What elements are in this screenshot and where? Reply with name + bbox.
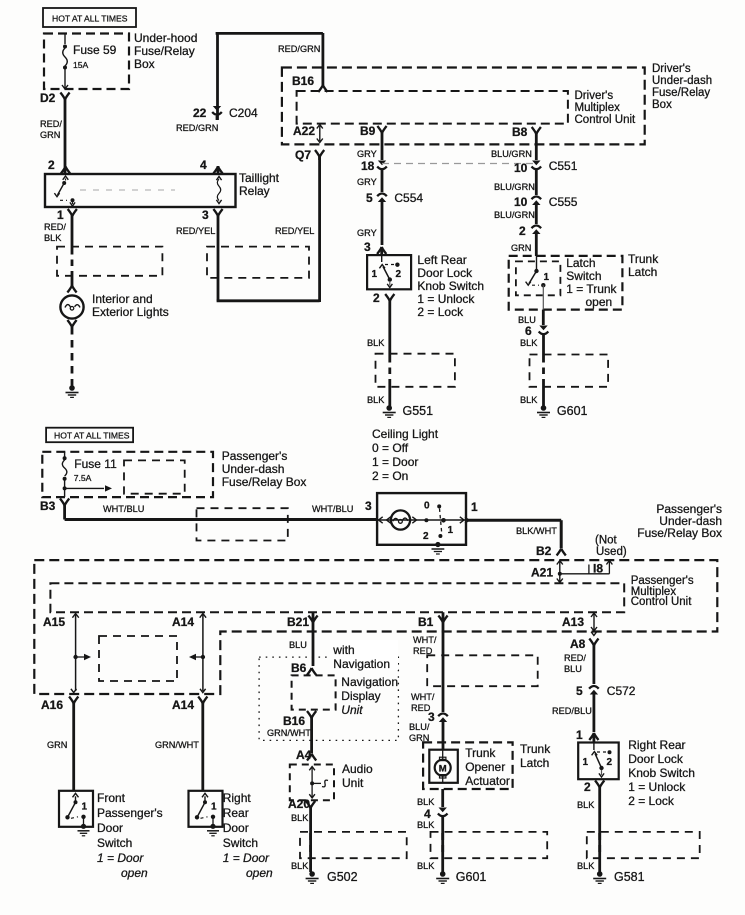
svg-text:A8: A8	[570, 637, 586, 651]
svg-text:Fuse/Relay: Fuse/Relay	[652, 87, 710, 99]
svg-text:A13: A13	[562, 615, 584, 629]
svg-text:3: 3	[364, 240, 371, 254]
svg-text:B3: B3	[40, 499, 56, 513]
svg-text:Taillight: Taillight	[239, 171, 280, 185]
svg-text:Box: Box	[134, 57, 155, 71]
svg-text:22: 22	[193, 106, 207, 120]
svg-text:BLK: BLK	[520, 338, 538, 348]
svg-text:BLU: BLU	[564, 664, 582, 674]
svg-text:5: 5	[576, 684, 583, 698]
svg-text:BLK: BLK	[44, 233, 62, 243]
svg-text:5: 5	[366, 191, 373, 205]
svg-text:BLU/: BLU/	[409, 722, 430, 732]
svg-text:4: 4	[424, 807, 431, 821]
svg-text:2: 2	[584, 780, 591, 794]
svg-text:Trunk: Trunk	[628, 252, 659, 266]
svg-text:Trunk: Trunk	[465, 746, 496, 760]
svg-text:2 = On: 2 = On	[372, 469, 408, 483]
svg-text:Under-dash: Under-dash	[222, 462, 285, 476]
svg-text:BLU/GRN: BLU/GRN	[494, 210, 535, 220]
svg-text:1: 1	[82, 801, 88, 812]
svg-text:Passenger's: Passenger's	[97, 806, 163, 820]
svg-text:Under-dash: Under-dash	[652, 75, 712, 87]
svg-text:BLK: BLK	[417, 797, 435, 807]
svg-text:WHT/: WHT/	[411, 692, 435, 702]
svg-text:1: 1	[211, 801, 217, 812]
svg-text:RED/YEL: RED/YEL	[176, 226, 215, 236]
svg-text:with: with	[332, 643, 354, 657]
svg-text:Door: Door	[97, 821, 123, 835]
svg-text:A4: A4	[296, 748, 312, 762]
svg-text:Door Lock: Door Lock	[417, 266, 473, 280]
svg-text:WHT/: WHT/	[413, 635, 437, 645]
svg-text:15A: 15A	[73, 60, 89, 70]
svg-text:A14: A14	[172, 698, 194, 712]
svg-text:1 = Door: 1 = Door	[372, 455, 418, 469]
svg-text:Fuse 59: Fuse 59	[73, 43, 117, 57]
svg-text:1: 1	[583, 757, 589, 768]
svg-text:2: 2	[48, 158, 55, 172]
svg-text:Q7: Q7	[295, 148, 311, 162]
svg-text:2: 2	[373, 291, 380, 305]
svg-text:Driver's: Driver's	[575, 90, 614, 102]
svg-text:Door: Door	[223, 821, 249, 835]
svg-text:18: 18	[361, 159, 375, 173]
svg-text:BLK: BLK	[577, 861, 595, 871]
svg-text:M: M	[439, 764, 447, 775]
svg-text:G502: G502	[327, 870, 358, 884]
svg-text:2 = Lock: 2 = Lock	[417, 305, 464, 319]
svg-text:1: 1	[544, 272, 550, 283]
svg-text:Latch: Latch	[566, 256, 595, 270]
svg-text:Rear: Rear	[223, 806, 249, 820]
svg-text:B16: B16	[283, 714, 305, 728]
svg-text:Fuse/Relay: Fuse/Relay	[134, 44, 195, 58]
svg-text:Fuse 11: Fuse 11	[74, 457, 117, 471]
svg-text:Unit: Unit	[341, 703, 363, 717]
svg-text:Exterior Lights: Exterior Lights	[92, 305, 169, 319]
svg-text:RED/GRN: RED/GRN	[176, 123, 218, 133]
svg-text:A21: A21	[531, 566, 553, 580]
svg-text:Switch: Switch	[97, 836, 132, 850]
svg-text:BLU: BLU	[289, 640, 307, 650]
svg-text:2: 2	[519, 224, 526, 238]
svg-text:1 = Trunk: 1 = Trunk	[566, 282, 617, 296]
svg-text:B8: B8	[512, 125, 528, 139]
svg-text:BLK: BLK	[520, 395, 538, 405]
svg-text:HOT AT ALL TIMES: HOT AT ALL TIMES	[52, 14, 128, 24]
svg-text:B16: B16	[292, 74, 314, 88]
svg-text:2: 2	[607, 757, 613, 768]
svg-text:A14: A14	[172, 615, 194, 629]
svg-text:GRY: GRY	[357, 177, 377, 187]
svg-text:GRN/WHT: GRN/WHT	[155, 740, 199, 750]
svg-text:open: open	[586, 295, 613, 309]
svg-text:Audio: Audio	[342, 762, 373, 776]
svg-text:(Not: (Not	[595, 535, 618, 547]
svg-text:Passenger's: Passenger's	[222, 449, 288, 463]
svg-text:Actuator: Actuator	[465, 774, 510, 788]
svg-text:G601: G601	[456, 870, 487, 884]
svg-text:B6: B6	[291, 661, 307, 675]
svg-text:BLK: BLK	[291, 813, 309, 823]
svg-text:WHT/BLU: WHT/BLU	[103, 504, 144, 514]
svg-text:Multiplex: Multiplex	[575, 102, 621, 114]
svg-text:BLK: BLK	[417, 861, 435, 871]
svg-text:Display: Display	[341, 689, 380, 703]
svg-text:0 = Off: 0 = Off	[372, 441, 409, 455]
svg-text:A22: A22	[293, 124, 315, 138]
svg-text:Ceiling Light: Ceiling Light	[372, 427, 439, 441]
svg-text:Switch: Switch	[223, 836, 258, 850]
svg-text:WHT/BLU: WHT/BLU	[312, 504, 353, 514]
svg-text:BLK: BLK	[367, 338, 385, 348]
svg-text:Used): Used)	[596, 546, 627, 558]
svg-text:A16: A16	[41, 698, 63, 712]
svg-text:Fuse/Relay Box: Fuse/Relay Box	[637, 526, 722, 540]
svg-text:Driver's: Driver's	[652, 63, 691, 75]
svg-text:1: 1	[372, 269, 378, 280]
svg-text:D2: D2	[40, 91, 56, 105]
svg-text:4: 4	[200, 158, 207, 172]
svg-text:A15: A15	[43, 615, 65, 629]
svg-text:Trunk: Trunk	[520, 742, 551, 756]
svg-text:2: 2	[423, 531, 429, 542]
svg-text:BLK: BLK	[291, 861, 309, 871]
svg-text:Navigation: Navigation	[341, 675, 398, 689]
svg-text:G601: G601	[557, 404, 588, 418]
svg-text:HOT AT ALL TIMES: HOT AT ALL TIMES	[54, 431, 130, 441]
svg-text:Opener: Opener	[465, 760, 505, 774]
svg-text:2: 2	[396, 269, 402, 280]
svg-text:RED/YEL: RED/YEL	[275, 226, 314, 236]
svg-text:BLK: BLK	[367, 395, 385, 405]
svg-text:BLU/GRN: BLU/GRN	[494, 182, 535, 192]
svg-text:Control Unit: Control Unit	[575, 114, 637, 126]
svg-text:open: open	[246, 866, 273, 880]
svg-text:BLU/GRN: BLU/GRN	[491, 149, 532, 159]
svg-text:C554: C554	[394, 191, 423, 205]
svg-text:Box: Box	[652, 99, 672, 111]
svg-text:Right: Right	[223, 791, 252, 805]
svg-text:1: 1	[576, 728, 583, 742]
svg-text:RED/: RED/	[44, 222, 66, 232]
svg-text:3: 3	[202, 208, 209, 222]
svg-text:Unit: Unit	[342, 776, 364, 790]
svg-text:1 = Unlock: 1 = Unlock	[628, 780, 686, 794]
svg-text:G581: G581	[614, 870, 645, 884]
svg-text:I8: I8	[593, 562, 603, 576]
svg-text:B21: B21	[287, 615, 309, 629]
svg-text:1: 1	[448, 525, 454, 536]
svg-text:RED/GRN: RED/GRN	[278, 44, 320, 54]
svg-text:Control Unit: Control Unit	[631, 596, 693, 608]
svg-text:B1: B1	[418, 615, 434, 629]
svg-text:BLK: BLK	[577, 800, 595, 810]
svg-text:open: open	[121, 866, 148, 880]
svg-text:C204: C204	[229, 106, 258, 120]
svg-text:GRN/WHT: GRN/WHT	[267, 728, 311, 738]
svg-text:RED/: RED/	[40, 119, 62, 129]
svg-text:GRY: GRY	[357, 149, 377, 159]
svg-text:Latch: Latch	[520, 756, 549, 770]
svg-text:Knob Switch: Knob Switch	[417, 279, 484, 293]
svg-text:GRY: GRY	[357, 228, 377, 238]
svg-text:C555: C555	[549, 195, 578, 209]
svg-text:10: 10	[514, 161, 528, 175]
svg-text:Fuse/Relay Box: Fuse/Relay Box	[222, 475, 307, 489]
svg-text:Interior and: Interior and	[92, 292, 153, 306]
svg-text:Knob Switch: Knob Switch	[628, 766, 695, 780]
svg-text:GRN: GRN	[40, 130, 60, 140]
svg-text:7.5A: 7.5A	[74, 473, 92, 483]
svg-text:C551: C551	[549, 159, 578, 173]
svg-text:RED/: RED/	[564, 653, 586, 663]
svg-text:B9: B9	[360, 124, 376, 138]
svg-text:RED/BLU: RED/BLU	[552, 706, 592, 716]
svg-text:Switch: Switch	[566, 269, 601, 283]
svg-text:6: 6	[525, 324, 532, 338]
svg-text:1: 1	[471, 500, 478, 514]
svg-text:B2: B2	[536, 544, 552, 558]
svg-text:1 = Unlock: 1 = Unlock	[417, 292, 475, 306]
svg-text:Latch: Latch	[628, 265, 657, 279]
svg-text:Navigation: Navigation	[333, 657, 390, 671]
svg-text:Relay: Relay	[239, 184, 270, 198]
svg-text:G551: G551	[403, 404, 434, 418]
svg-text:2 = Lock: 2 = Lock	[628, 794, 675, 808]
svg-text:Under-hood: Under-hood	[134, 31, 197, 45]
svg-text:Left Rear: Left Rear	[417, 253, 466, 267]
svg-text:GRN: GRN	[47, 740, 67, 750]
svg-text:10: 10	[514, 195, 528, 209]
svg-text:Front: Front	[97, 791, 126, 805]
svg-text:1: 1	[57, 208, 64, 222]
svg-text:1 = Door: 1 = Door	[223, 851, 270, 865]
svg-text:C572: C572	[607, 684, 636, 698]
svg-text:Right Rear: Right Rear	[628, 738, 685, 752]
svg-text:GRN: GRN	[511, 243, 531, 253]
svg-text:1 = Door: 1 = Door	[97, 851, 144, 865]
svg-text:Door Lock: Door Lock	[628, 752, 684, 766]
svg-text:3: 3	[365, 499, 372, 513]
svg-text:BLK/WHT: BLK/WHT	[516, 526, 557, 536]
svg-text:BLK: BLK	[417, 820, 435, 830]
svg-text:0: 0	[424, 501, 430, 512]
